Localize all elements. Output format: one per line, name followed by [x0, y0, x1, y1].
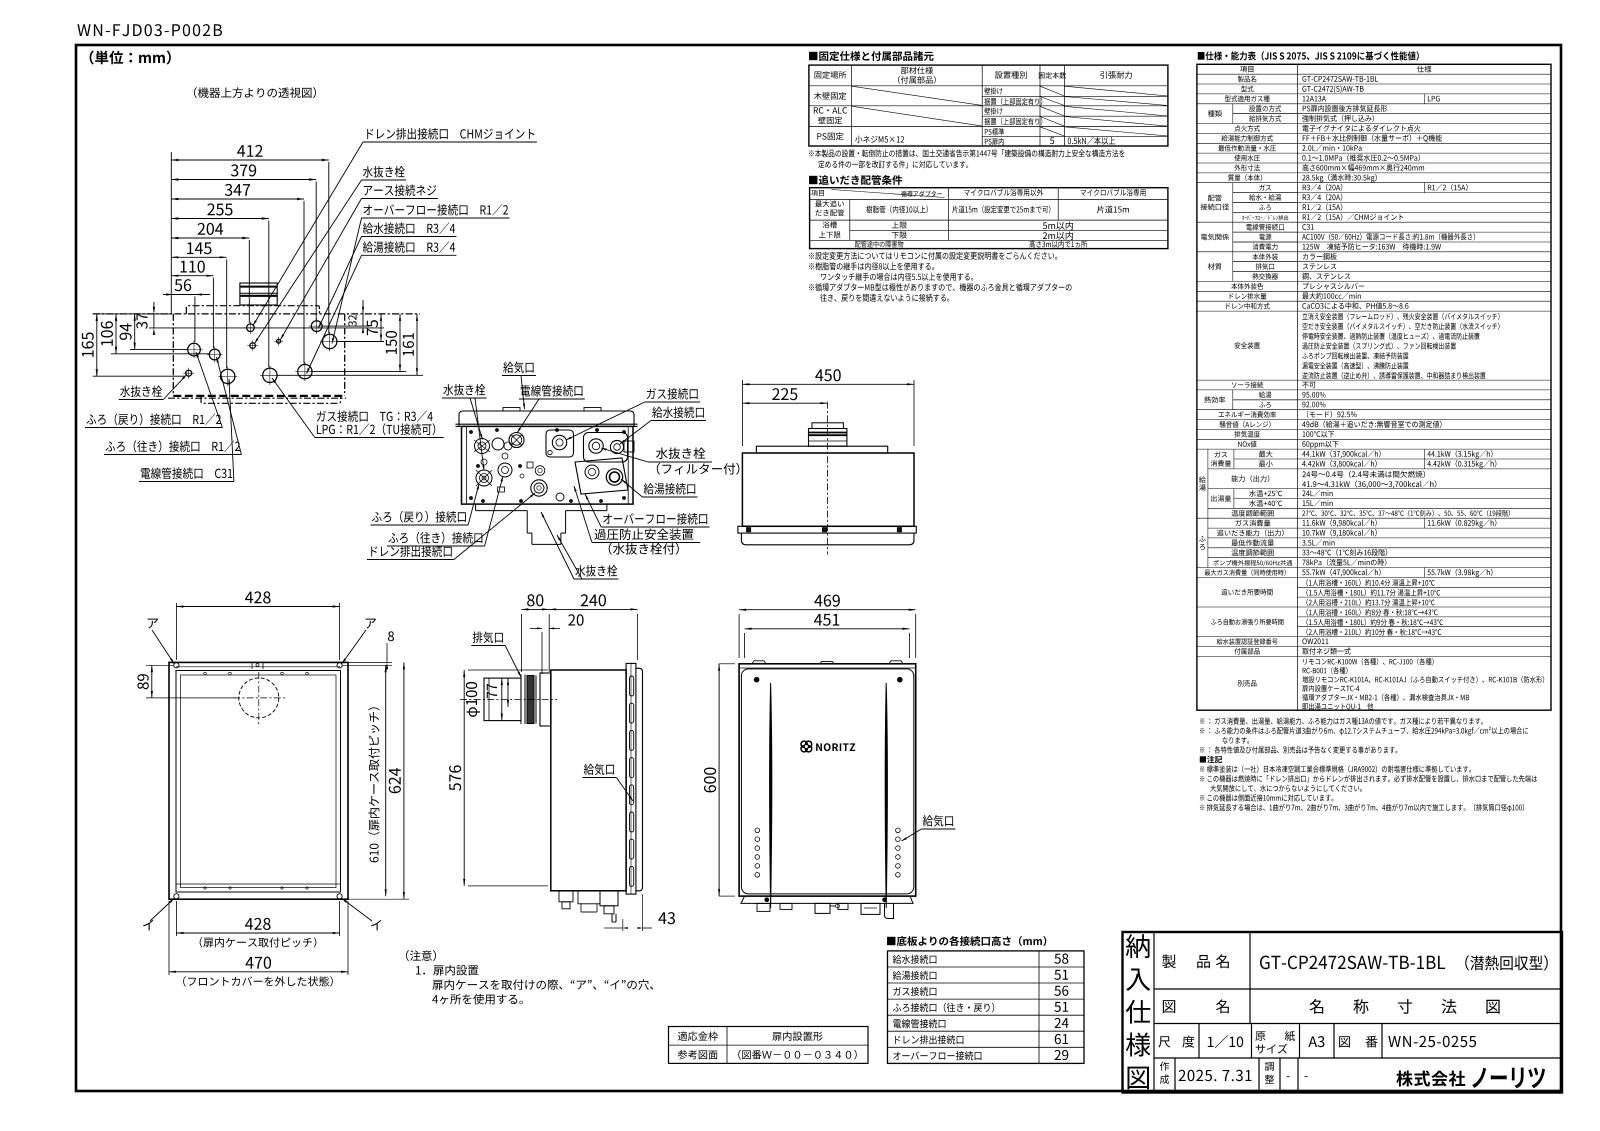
bottom view main body — [462, 426, 634, 504]
reheating piping table grid — [810, 188, 1168, 249]
connection height table grid — [888, 951, 1085, 1064]
plan view 450 dimension — [741, 380, 743, 446]
bottom view lower tray — [475, 504, 477, 511]
label conduit connection — [521, 385, 583, 397]
top view connection holes — [186, 370, 192, 376]
label bath return connection — [372, 511, 466, 523]
reheating piping table header — [811, 190, 824, 196]
reheating piping table title — [809, 175, 902, 185]
label conduit C31 — [141, 467, 232, 479]
label bath return R1/2 — [86, 413, 221, 425]
label feedwater connection — [652, 406, 704, 418]
Noritz company logo — [1396, 1071, 1465, 1087]
side view bottom fittings — [559, 891, 573, 902]
label gas connection TG R3/4 LPG R1/2 — [317, 410, 433, 422]
spec group kind — [1232, 104, 1234, 124]
rear view outer case — [169, 662, 348, 899]
spec group piping diameters — [1232, 183, 1234, 223]
fixing spec table diagonal strokes — [852, 86, 983, 105]
label bath supply R1/2 — [105, 440, 240, 452]
rear view 428 top dimension — [175, 603, 177, 660]
labels I (bottom mounting holes) — [143, 920, 153, 931]
fixing spec table headers — [815, 71, 847, 79]
dimension stack 412/379/347/255/204/145/110/56 — [170, 152, 172, 314]
reheating piping notes — [809, 252, 1057, 260]
dimension 8 (top right) — [342, 661, 392, 663]
rear view 428 bottom dimension — [175, 901, 177, 936]
label water drain plug top — [363, 166, 405, 178]
spec group bath — [1207, 518, 1209, 567]
bottom view perimeter screws — [469, 430, 472, 433]
dimension 56 — [163, 294, 210, 296]
side view phi100 dimension — [501, 678, 503, 721]
bottom view water inlet panel — [584, 433, 628, 463]
rear view bottom inner detail — [176, 883, 340, 885]
installation note — [406, 950, 436, 961]
rear view top mounting detail — [176, 666, 340, 668]
dimension stack 32/75/150/161 — [322, 325, 369, 327]
label hot water R3/4 — [363, 241, 455, 253]
labels A (top mounting holes) — [148, 619, 158, 629]
spec group electric — [1232, 222, 1234, 252]
fixing spec table grid — [809, 65, 1168, 146]
label exhaust port — [473, 631, 503, 643]
label overflow connection — [603, 513, 707, 525]
reheating piping table rows — [815, 200, 844, 207]
title block outer frame — [1123, 932, 1563, 1093]
spec row product name — [1238, 76, 1256, 83]
label overflow R1/2 — [363, 204, 508, 216]
plan view center line — [826, 402, 828, 555]
plan view exhaust stub — [809, 429, 847, 447]
bottom view drain fitting — [531, 480, 547, 496]
side view intake louvers — [630, 676, 634, 696]
capability spec table grid — [1197, 64, 1551, 710]
top view rear step outline — [186, 306, 319, 314]
plan view 225 dimension — [742, 402, 827, 404]
side view 80 dimension — [520, 614, 522, 672]
front view 469 dimension — [738, 614, 740, 658]
capability spec table title — [1198, 51, 1419, 60]
label water drain plug left — [120, 385, 162, 397]
title block drawing name row — [1163, 1000, 1175, 1013]
label feedwater R3/4 — [363, 222, 455, 234]
title block product name row — [1162, 954, 1176, 968]
rear view corner mounting holes — [174, 663, 179, 668]
notes section — [1200, 756, 1222, 763]
fixing spec table row labels — [814, 92, 846, 100]
label water drain plugs left — [443, 384, 485, 396]
label air supply port — [503, 361, 533, 373]
spec table footnotes — [1200, 717, 1483, 724]
bottom view small port markers — [498, 487, 505, 492]
title block scale row — [1198, 1024, 1200, 1059]
dimension 89 — [146, 664, 174, 666]
top view body outline — [93, 313, 420, 315]
front view bottom rail and feet — [739, 895, 916, 897]
NORITZ logo — [801, 741, 855, 752]
label gas connection — [647, 388, 698, 400]
front view louver holes — [755, 828, 760, 833]
dimension stack 165/106/94/37 — [93, 313, 171, 315]
label drain discharge connection — [371, 545, 452, 557]
spec group thermal efficiency — [1232, 390, 1234, 410]
label air intake port — [584, 763, 614, 775]
label drain plugs bottom — [575, 565, 617, 577]
side view 576 dimension — [468, 669, 548, 671]
top view front tray outline — [201, 396, 341, 403]
label bath supply connection — [388, 532, 482, 544]
label air intake (front view) — [923, 815, 953, 827]
title block date row — [1174, 1058, 1176, 1093]
compatible frame box — [669, 1027, 869, 1064]
spec group hot water supply — [1207, 449, 1209, 518]
side view body — [551, 670, 626, 891]
front view panel rib lines — [770, 683, 772, 908]
label hot water connection — [644, 483, 696, 495]
front view body outline — [739, 664, 916, 896]
front view bottom fittings — [757, 903, 770, 911]
label earth screw — [364, 184, 436, 196]
top view caption — [194, 87, 316, 98]
connection height table rows — [893, 955, 937, 964]
title block vertical label (delivery spec drawing) — [1126, 934, 1150, 958]
side view 20 dimension — [541, 632, 543, 674]
front view 600 dimension — [719, 663, 735, 665]
spec optional parts row — [1238, 680, 1257, 687]
bottom view flue column — [526, 511, 528, 533]
side view exhaust pipe — [484, 678, 521, 721]
label pressure relief device — [594, 528, 693, 540]
fixing spec note — [809, 149, 1125, 157]
unit note (tani:mm) — [90, 51, 171, 65]
top view exhaust duct — [240, 283, 277, 305]
side view 43 dimension — [642, 894, 644, 931]
bottom view top plate — [459, 411, 634, 426]
bottom view conduit knob — [509, 433, 524, 448]
spec reheating time rows — [1222, 589, 1273, 596]
bottom view hot-water outlet panel — [575, 458, 628, 494]
spec group material — [1232, 252, 1234, 282]
spec rows: header — [1240, 66, 1253, 72]
side view 77 dimension — [507, 678, 509, 707]
front view top screws — [754, 677, 759, 682]
fixing spec table title — [809, 51, 934, 61]
dimension 610 (door case pitch) — [385, 665, 387, 896]
spec safety devices row — [1235, 342, 1260, 349]
plan view body — [742, 453, 914, 526]
connection height table title — [887, 936, 1046, 946]
rear view 470 dimension — [168, 901, 170, 975]
dimension 624 — [342, 898, 409, 900]
side view 240 dimension — [637, 614, 639, 660]
label drain plug with filter — [656, 447, 705, 459]
drawing number header WN-FJD03-P002B — [77, 24, 222, 36]
bottom view gas connection panel — [546, 430, 574, 457]
label drain outlet CHM joint — [367, 128, 534, 140]
bottom view left fitting cluster (bath connections) — [475, 439, 490, 454]
plan view base rail — [738, 526, 916, 533]
rear view exhaust knockout hole — [239, 678, 279, 718]
front view 451 dimension — [744, 633, 746, 658]
